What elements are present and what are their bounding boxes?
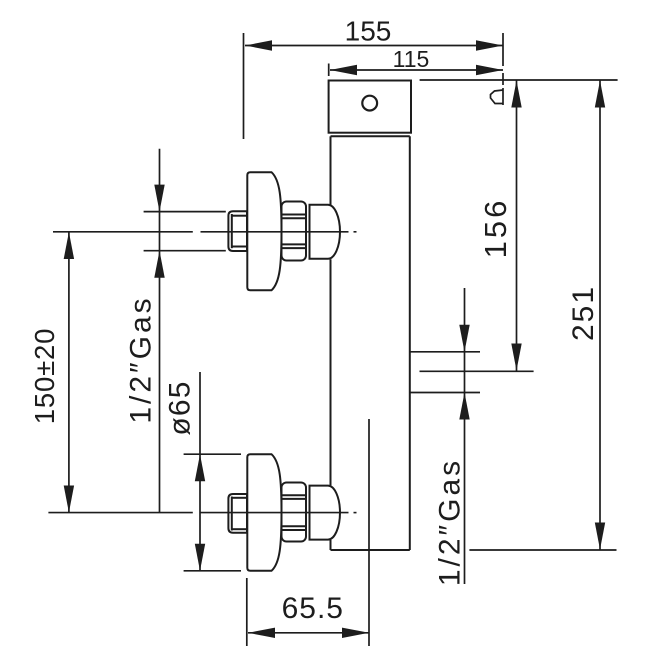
arrow 251 top: [595, 81, 605, 108]
text 251 (rotated): [567, 285, 600, 341]
arrow 115 right: [476, 65, 503, 75]
bottom dome connector: [310, 486, 340, 540]
dimension 150±20 line: [68, 232, 70, 513]
right 1/2"Gas dimension lines: [464, 288, 466, 584]
arrow 156 top: [511, 81, 521, 108]
right dashed extension at x=503: [502, 33, 504, 105]
arrow ø65 bottom: [195, 544, 205, 571]
arrow 155 right: [476, 40, 503, 50]
top dome connector: [310, 205, 340, 259]
arrow ø65 top: [195, 454, 205, 481]
mixer body outline: [331, 136, 410, 550]
text left 1/2"Gas (rotated): [125, 295, 158, 423]
text 150±20 (rotated): [29, 328, 60, 424]
top-right extension line (top reference): [420, 79, 618, 81]
left 1/2"Gas dimension lines: [159, 149, 161, 513]
arrow right-gas down: [459, 325, 469, 352]
top assembly centerline: [53, 231, 357, 233]
dimension 115: extension + line: [329, 64, 503, 77]
svg-text:1/2″Gas: 1/2″Gas: [434, 458, 467, 586]
text 115: [393, 46, 430, 72]
top flange (escutcheon): [247, 172, 281, 290]
text 65.5: [282, 592, 344, 625]
left pipe extension lines: [144, 212, 226, 251]
dimension 251 line: [599, 81, 601, 550]
bottom hex nut: [282, 483, 307, 542]
mounting box (top bracket): [329, 81, 411, 133]
arrow left-gas down: [154, 185, 164, 212]
svg-text:1/2″Gas: 1/2″Gas: [125, 295, 158, 423]
svg-text:ø65: ø65: [164, 380, 197, 435]
arrow 155 left: [245, 40, 272, 50]
dimension 156 line: [516, 81, 518, 371]
arrow 65.5 left: [248, 628, 275, 638]
top hex nut: [282, 202, 307, 261]
small rotated glyph near x=503: [491, 90, 504, 104]
text ø65 (rotated): [164, 380, 197, 435]
arrow 150±20 bottom: [64, 486, 74, 513]
text 155: [345, 16, 392, 47]
arrow 115 left: [330, 65, 357, 75]
text right 1/2"Gas (rotated): [434, 458, 467, 586]
svg-text:156: 156: [478, 198, 513, 259]
svg-text:251: 251: [567, 285, 600, 341]
arrow right-gas up: [459, 393, 469, 420]
ø65 dimension line + extensions: [184, 372, 241, 571]
bottom flange (escutcheon): [247, 454, 281, 571]
arrow 156 bottom: [511, 344, 521, 371]
svg-text:150±20: 150±20: [29, 328, 60, 424]
bottom assembly centerline: [48, 512, 356, 514]
text 156 (rotated): [478, 198, 513, 259]
top inlet pipe nipple: [228, 211, 247, 251]
svg-text:115: 115: [393, 46, 430, 72]
svg-text:65.5: 65.5: [282, 592, 344, 625]
svg-text:155: 155: [345, 16, 392, 47]
arrow 65.5 right: [342, 628, 369, 638]
arrowheads: [64, 40, 606, 638]
bottom inlet pipe nipple: [228, 494, 247, 533]
dimension 155: extension + line: [244, 33, 504, 139]
arrow left-gas up: [154, 251, 164, 278]
dimension 65.5: extensions + line: [247, 419, 369, 646]
screw hole circle: [362, 96, 377, 111]
right shower outlet marks: [410, 352, 534, 393]
arrow 150±20 top: [64, 232, 74, 259]
bottom-right extension line: [469, 549, 616, 551]
arrow 251 bottom: [595, 523, 605, 550]
